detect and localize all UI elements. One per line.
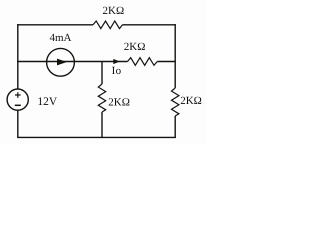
wire left rail lower bbox=[17, 110, 19, 137]
wire top-right horizontal bbox=[123, 24, 176, 26]
wire middle branch upper bbox=[101, 62, 103, 85]
resistor 2K middle horizontal bbox=[128, 58, 158, 66]
wire middle rail right bbox=[157, 61, 176, 63]
resistor 2K right vertical bbox=[172, 88, 179, 116]
voltage source 12V bbox=[7, 89, 28, 110]
wire middle rail bbox=[17, 61, 127, 63]
wire bottom rail bbox=[17, 136, 176, 138]
voltage source minus bbox=[15, 104, 21, 106]
voltage source plus bbox=[15, 92, 21, 98]
resistor 2K top bbox=[93, 21, 123, 29]
svg-text:2KΩ: 2KΩ bbox=[124, 41, 146, 53]
svg-text:2KΩ: 2KΩ bbox=[103, 5, 125, 17]
resistor 2K middle vertical bbox=[98, 84, 105, 112]
wire right rail lower bbox=[174, 116, 176, 138]
current arrow Io arrowhead bbox=[113, 59, 120, 64]
current source arrowhead bbox=[57, 59, 67, 66]
wire middle branch lower bbox=[101, 112, 103, 138]
wire left rail upper bbox=[17, 24, 19, 62]
svg-text:2KΩ: 2KΩ bbox=[180, 95, 202, 107]
wire left rail to voltage source bbox=[17, 62, 19, 89]
svg-text:Io: Io bbox=[112, 65, 122, 77]
svg-text:2KΩ: 2KΩ bbox=[108, 96, 130, 108]
svg-text:12V: 12V bbox=[37, 96, 58, 108]
svg-text:4mA: 4mA bbox=[50, 32, 72, 44]
wire right rail upper bbox=[174, 24, 176, 88]
wire top-left horizontal bbox=[17, 24, 93, 26]
current source 4mA bbox=[47, 48, 75, 76]
